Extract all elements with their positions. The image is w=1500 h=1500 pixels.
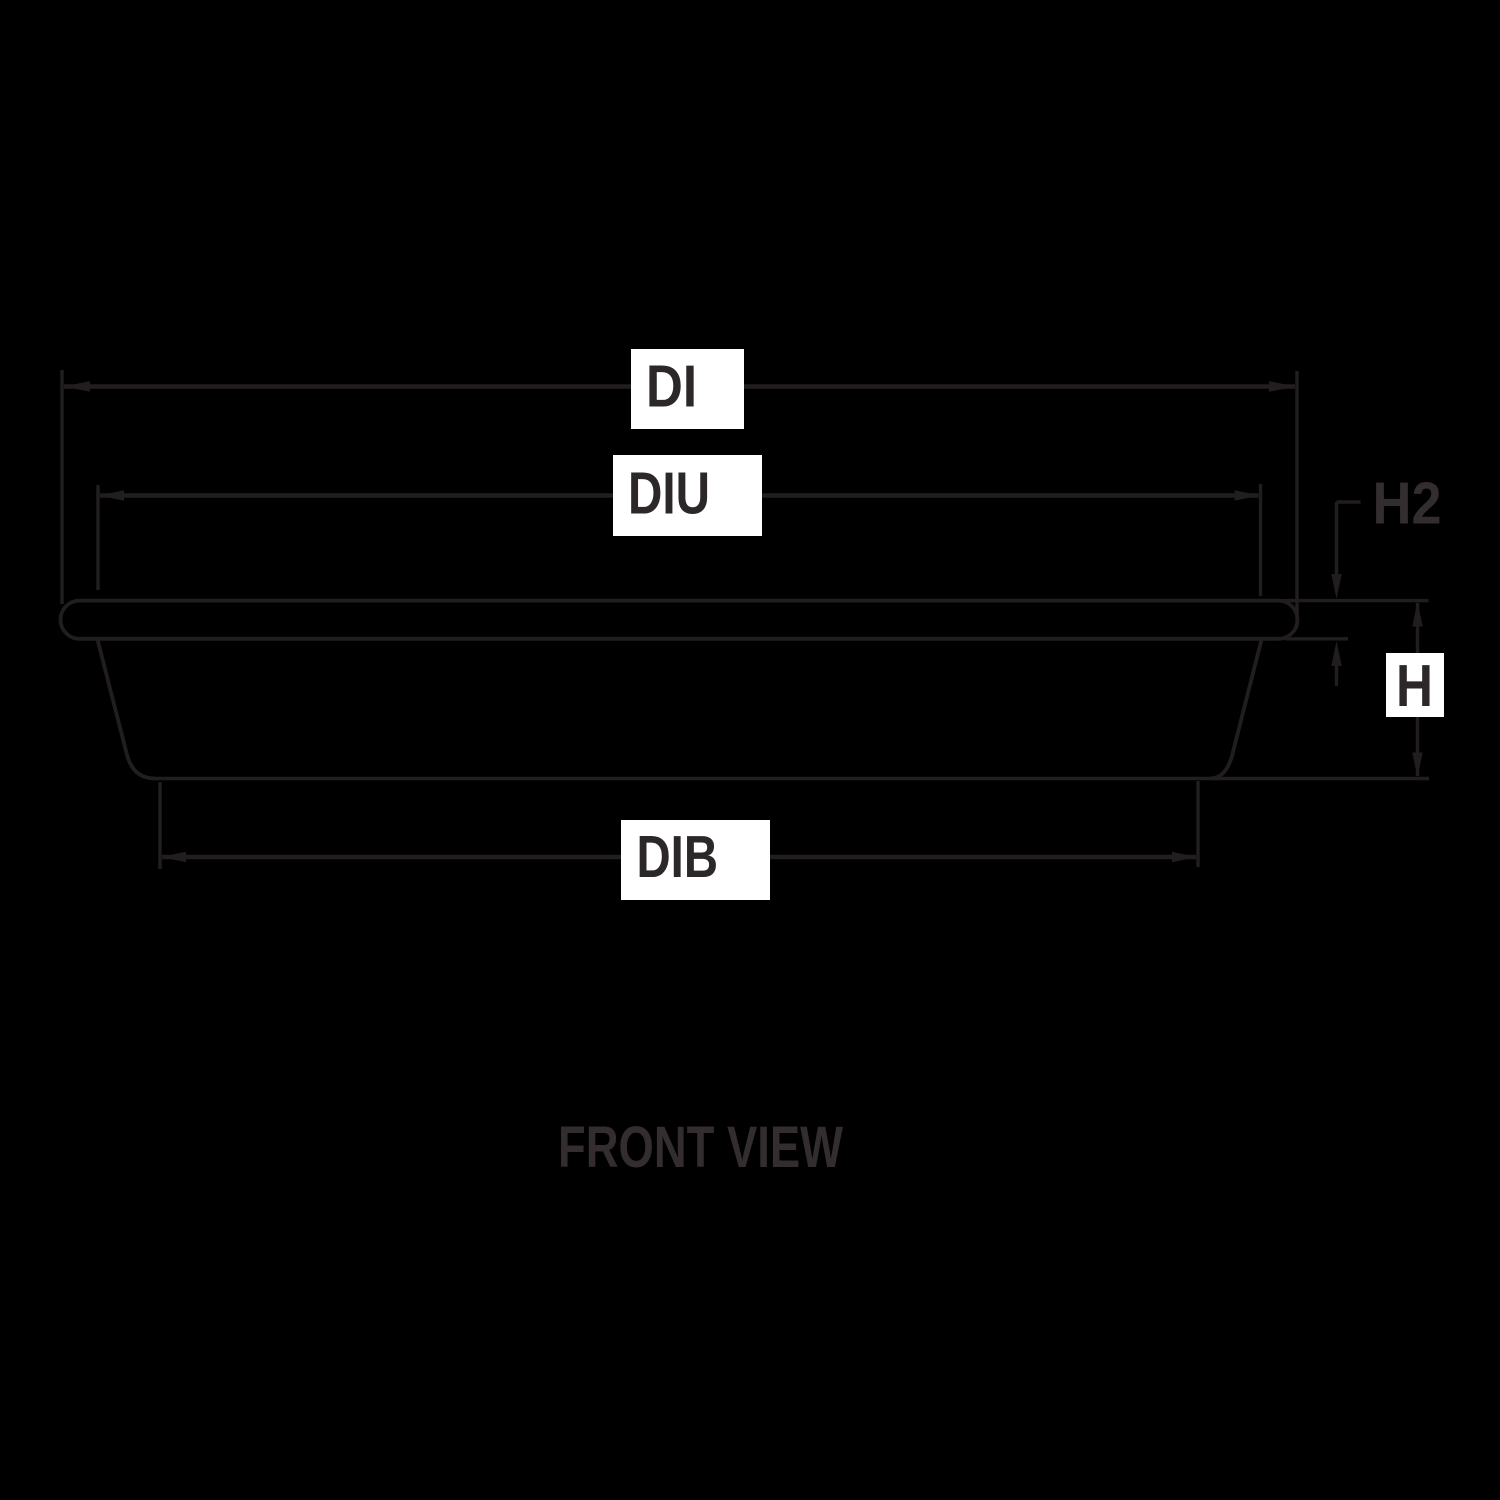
saucer bottom line with H extension xyxy=(152,777,1429,780)
DI dimension line left segment xyxy=(64,384,631,388)
DIB extension line left xyxy=(158,782,161,869)
svg-text:DIU: DIU xyxy=(628,461,710,527)
DIB label box xyxy=(621,820,770,900)
H dimension line xyxy=(1416,603,1419,776)
DIB arrowhead left xyxy=(161,852,186,862)
H2 leader tick xyxy=(1337,500,1361,503)
saucer body left slant xyxy=(98,640,156,779)
DI extension line left xyxy=(60,370,63,604)
DI arrowhead left xyxy=(63,381,90,392)
H2 down arrowhead xyxy=(1331,574,1341,599)
H2 lower arrow stem xyxy=(1335,660,1338,686)
DIB extension line right xyxy=(1196,781,1199,867)
svg-text:FRONT VIEW: FRONT VIEW xyxy=(558,1115,843,1180)
DIB arrowhead right xyxy=(1172,852,1197,862)
DIU extension line left xyxy=(96,485,99,590)
svg-text:DI: DI xyxy=(646,354,697,420)
DIU arrowhead left xyxy=(99,490,124,500)
DI extension line right xyxy=(1295,371,1298,620)
DIU dimension line right segment xyxy=(762,493,1259,497)
DI label box xyxy=(631,349,744,429)
H up arrowhead xyxy=(1412,602,1422,627)
DI dimension line right segment xyxy=(744,384,1295,388)
DI arrowhead right xyxy=(1269,381,1296,392)
DIB dimension line right segment xyxy=(770,855,1196,859)
DIU dimension line left segment xyxy=(100,493,613,497)
saucer body right slant xyxy=(1210,640,1262,779)
rim bottom extension line for H2 xyxy=(1285,637,1348,640)
svg-text:H: H xyxy=(1396,653,1433,719)
svg-text:H2: H2 xyxy=(1373,471,1442,537)
DIU arrowhead right xyxy=(1235,490,1260,500)
saucer rim (stadium outline) xyxy=(61,601,1298,639)
H down arrowhead xyxy=(1412,753,1422,778)
H2 leader stem upper xyxy=(1335,502,1338,580)
rim top extension line for H xyxy=(1282,599,1429,602)
H2 up arrowhead xyxy=(1331,641,1341,666)
DIU label box xyxy=(613,455,762,536)
DIB dimension line left segment xyxy=(162,855,621,859)
H label box xyxy=(1386,653,1444,717)
svg-text:DIB: DIB xyxy=(637,824,719,890)
DIU extension line right xyxy=(1259,484,1262,596)
